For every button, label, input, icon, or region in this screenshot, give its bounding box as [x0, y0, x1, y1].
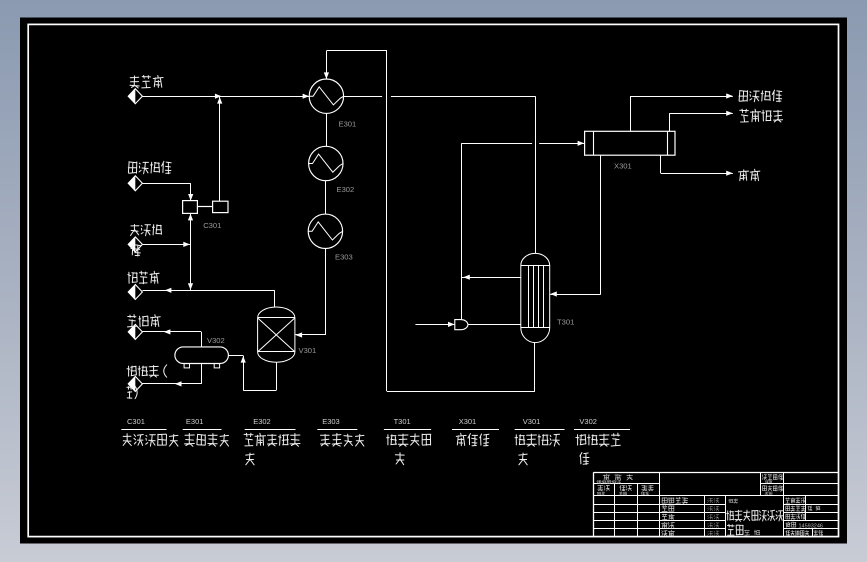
node diamond crude methanol	[128, 376, 142, 391]
wire V301 bottom to V302	[228, 355, 243, 357]
svg-text:V301: V301	[523, 417, 541, 426]
svg-text:V302: V302	[579, 417, 597, 426]
wire steam drum riser	[461, 143, 463, 319]
drum leg 1	[184, 364, 189, 368]
wire T301 bottom outlet	[534, 342, 536, 391]
wire turbine exhaust drop	[190, 213, 192, 290]
label 新鲜气	[130, 76, 163, 89]
reactor T301	[521, 253, 550, 342]
crude methanol drum V302	[175, 347, 229, 364]
svg-text:E301: E301	[186, 417, 204, 426]
svg-text:T301: T301	[394, 417, 411, 426]
wire V301 top riser	[274, 290, 276, 307]
wire riser to X301	[461, 143, 532, 145]
wire injector to T301	[468, 324, 521, 326]
svg-text:C301: C301	[203, 221, 221, 230]
wire X301 downcomer to T301	[600, 155, 602, 294]
svg-text:E302: E302	[253, 417, 271, 426]
label 低压蒸	[131, 225, 162, 236]
svg-text:X301: X301	[459, 417, 477, 426]
wire E303 outlet to V301	[325, 248, 327, 335]
steam drum X301	[585, 131, 675, 155]
heat exchanger E303	[308, 214, 342, 248]
drum leg 2	[214, 364, 219, 368]
feed water injector	[455, 320, 468, 330]
svg-text:X301: X301	[614, 162, 632, 171]
wire recycle left vertical	[386, 51, 388, 391]
label 液)	[127, 386, 137, 398]
node diamond MP steam	[128, 176, 142, 191]
node diamond purge gas	[128, 285, 142, 300]
wire feed water stub	[415, 324, 454, 326]
compressor C301 turbine box	[183, 201, 198, 214]
wire fresh gas feed line	[142, 96, 309, 98]
wire E301-E302	[326, 113, 328, 146]
wire vent line	[660, 155, 662, 173]
node diamond LP steam	[128, 237, 142, 252]
svg-text:E303: E303	[322, 417, 340, 426]
wire tank gas line	[142, 331, 201, 333]
compressor C301 body box	[213, 201, 228, 212]
wire boiler feed water line	[669, 113, 671, 131]
wire E302-E303	[325, 181, 327, 215]
wire recycle top line	[326, 50, 387, 52]
wire purge gas line	[142, 290, 274, 292]
svg-text:E303: E303	[335, 253, 353, 262]
wire E301 top inlet drop	[326, 51, 328, 79]
label 锅炉给水	[740, 109, 783, 122]
label 排气	[739, 169, 760, 181]
wire MP steam to turbine	[143, 183, 191, 185]
svg-text:C301: C301	[127, 417, 145, 426]
compressor shaft	[197, 206, 212, 208]
wire E301 outlet to T301 top	[344, 96, 383, 98]
wire crude methanol outlet	[201, 364, 203, 384]
svg-text:E301: E301	[339, 120, 357, 129]
svg-text:E302: E302	[337, 185, 355, 194]
label 汽 wrapped	[131, 244, 141, 256]
label 粗甲醇(	[127, 365, 167, 377]
title block grid	[593, 472, 838, 474]
svg-text:14593246: 14593246	[799, 523, 823, 529]
svg-text:T301: T301	[557, 318, 574, 327]
wire T301 water outlet to riser	[461, 277, 520, 279]
node diamond tank gas	[128, 324, 142, 339]
wire LP steam line	[142, 244, 190, 246]
heat exchanger E301	[309, 79, 343, 113]
wire X301 to MP steam out	[630, 96, 632, 131]
wire recycle bottom line	[387, 391, 535, 393]
wire compressor discharge riser	[219, 96, 221, 201]
label 驰放气	[128, 271, 159, 284]
svg-text:V301: V301	[299, 346, 317, 355]
title block texts	[603, 474, 633, 480]
node diamond fresh gas	[128, 89, 142, 104]
heat exchanger E302	[309, 146, 343, 180]
label 中压蒸汽 right	[739, 90, 782, 102]
svg-text:V302: V302	[207, 336, 225, 345]
separator V301	[258, 307, 295, 362]
label 贮罐气	[128, 315, 161, 327]
label 中压蒸汽 left	[128, 161, 171, 174]
